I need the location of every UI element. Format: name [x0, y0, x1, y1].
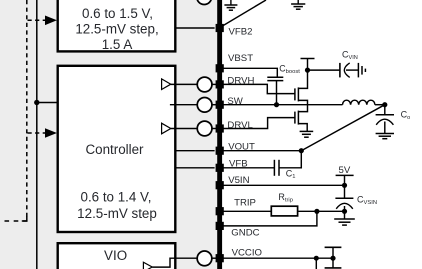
node : Cboost junction on SW — [274, 102, 279, 107]
ground : Co — [376, 134, 394, 139]
buffer : DRVH output circle — [197, 77, 212, 92]
wire : circle to VCCIO pin — [212, 257, 217, 259]
buffer : DRVL output circle — [197, 121, 212, 136]
pin GNDC — [216, 222, 260, 239]
node : VIN junction — [305, 68, 310, 73]
IC interior shading — [0, 0, 220, 269]
wire : Cboost to SW node — [276, 81, 278, 105]
wire : dashed arrow into controller block — [28, 128, 57, 138]
wire : VOUT junction down to C1 — [279, 151, 301, 168]
svg-text:GNDC: GNDC — [231, 228, 259, 239]
capacitor C1 — [274, 160, 295, 180]
wire : dashed arrow into top regulator block — [28, 16, 57, 26]
wire : DRVH to high-side gate — [222, 84, 295, 93]
pin VFB2 — [216, 24, 253, 37]
wire : VBST to bootstrap capacitor — [222, 68, 277, 77]
node : VCCIO junction 1 — [314, 256, 319, 261]
node : VCCIO junction 2 — [330, 256, 335, 261]
ground : top left — [224, 0, 237, 10]
wire : VFB from controller — [177, 167, 215, 169]
node : V5IN junction — [342, 183, 347, 188]
wire : circle to SW pin — [212, 104, 217, 106]
node : junction on feed line — [34, 100, 57, 105]
svg-text:12.5-mV step: 12.5-mV step — [77, 206, 157, 221]
IC boundary bar — [217, 0, 222, 269]
wire : TRIP to Rtrip — [222, 210, 271, 212]
svg-text:TRIP: TRIP — [234, 198, 256, 209]
wire : VFB2 diagonal sense line — [222, 0, 266, 26]
wire : DRVL row — [171, 128, 198, 130]
node : Rtrip junction — [314, 209, 319, 214]
wire : solid vertical feed line — [36, 0, 38, 269]
buffer : VIO output triangle — [143, 262, 152, 269]
wire : VOUT from controller — [177, 150, 215, 152]
block : VIO — [58, 243, 176, 269]
ground : CVIN sideways — [358, 63, 365, 78]
buffer : SW sense circle — [197, 97, 212, 112]
svg-text:1.5 A: 1.5 A — [102, 37, 133, 52]
pin VBST — [216, 53, 254, 72]
wire : circle to DRVH pin — [212, 83, 217, 85]
resistor Rtrip — [271, 192, 297, 216]
wire : VCCIO rail — [222, 257, 333, 259]
wire : circle to DRVL pin — [212, 128, 217, 130]
power : 5V supply tee — [336, 165, 354, 185]
svg-text:VCCIO: VCCIO — [232, 247, 262, 258]
node : output junction — [382, 102, 387, 107]
inductor L — [343, 100, 375, 105]
power : VCCIO supply tee — [325, 247, 342, 258]
wire : SW node to inductor — [222, 104, 342, 106]
wire : V5IN to 5V — [222, 184, 344, 186]
block : buck regulator 0.6-1.5V — [58, 0, 176, 52]
buffer : top cut circle — [197, 0, 212, 5]
transistor Q2 low-side NMOS — [295, 105, 308, 132]
ground : top middle — [291, 0, 305, 9]
pin DRVL — [216, 120, 254, 133]
buffer : VCCIO output circle — [197, 251, 212, 266]
wire : dashed control bus horizontal bottom-left — [2, 220, 28, 222]
wire : SW row inside controller — [170, 104, 197, 106]
pin VOUT — [216, 141, 255, 155]
power : VIN supply tee — [301, 59, 315, 71]
svg-text:VBST: VBST — [228, 53, 253, 64]
capacitor : VCCIO bypass (cut at bottom) — [325, 258, 342, 268]
wire : DRVL to low-side gate — [222, 118, 295, 129]
pin DRVH — [216, 76, 255, 89]
wire : inductor to output node — [375, 104, 385, 106]
node : CVSIN bottom junction — [342, 209, 347, 214]
svg-text:Controller: Controller — [85, 142, 144, 157]
ground : low-side source — [300, 131, 314, 137]
pin VFB — [216, 158, 248, 172]
svg-text:0.6 to 1.4 V,: 0.6 to 1.4 V, — [81, 190, 152, 205]
wire : VIN to CVIN — [308, 69, 340, 71]
capacitor CVIN — [340, 50, 359, 78]
wire : DRVH row — [171, 83, 198, 85]
svg-text:0.6 to 1.5 V,: 0.6 to 1.5 V, — [82, 6, 153, 21]
wire : VIO triangle to VCCIO — [152, 258, 197, 267]
wire : VFB2 to regulator block — [177, 27, 215, 29]
pin TRIP — [216, 198, 256, 216]
pin V5IN — [216, 175, 250, 189]
svg-text:V5IN: V5IN — [228, 175, 249, 186]
wire : dashed control bus vertical — [26, 0, 28, 221]
pin VCCIO — [216, 247, 262, 262]
wire : Rtrip to CVSIN bottom — [298, 210, 344, 212]
wire : VFB to C1 — [222, 167, 274, 169]
pin SW — [216, 96, 244, 109]
svg-text:VFB2: VFB2 — [229, 26, 253, 37]
svg-text:5V: 5V — [339, 165, 351, 176]
transistor Q1 high-side NMOS — [295, 70, 308, 105]
block : controller — [58, 66, 176, 232]
svg-text:VIO: VIO — [104, 248, 127, 263]
wire : junction down to GNDC — [222, 211, 317, 226]
capacitor CVSIN — [335, 185, 377, 219]
wire : VCCIO junction down (cut) — [315, 258, 317, 269]
capacitor Cboost — [267, 64, 300, 81]
wire : VOUT to sense junction — [222, 150, 301, 152]
buffer : DRVH driver triangle — [162, 79, 171, 90]
svg-text:12.5-mV step,: 12.5-mV step, — [75, 22, 158, 37]
ground : CVSIN — [334, 219, 355, 225]
capacitor Co — [376, 105, 411, 134]
node : VOUT junction — [299, 148, 304, 153]
wire : diagonal output sense to VOUT — [301, 105, 385, 151]
buffer : DRVL driver triangle — [162, 123, 171, 134]
